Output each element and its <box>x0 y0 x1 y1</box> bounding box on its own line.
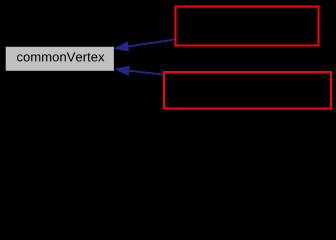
edge arrow from bottom red box to commonVertex <box>115 66 165 75</box>
bottom red box (truncated caller node) <box>164 72 331 108</box>
edge arrow from top red box to commonVertex <box>115 39 177 51</box>
top red box (truncated caller node) <box>176 7 319 46</box>
node commonVertex (gray box) <box>6 47 114 71</box>
